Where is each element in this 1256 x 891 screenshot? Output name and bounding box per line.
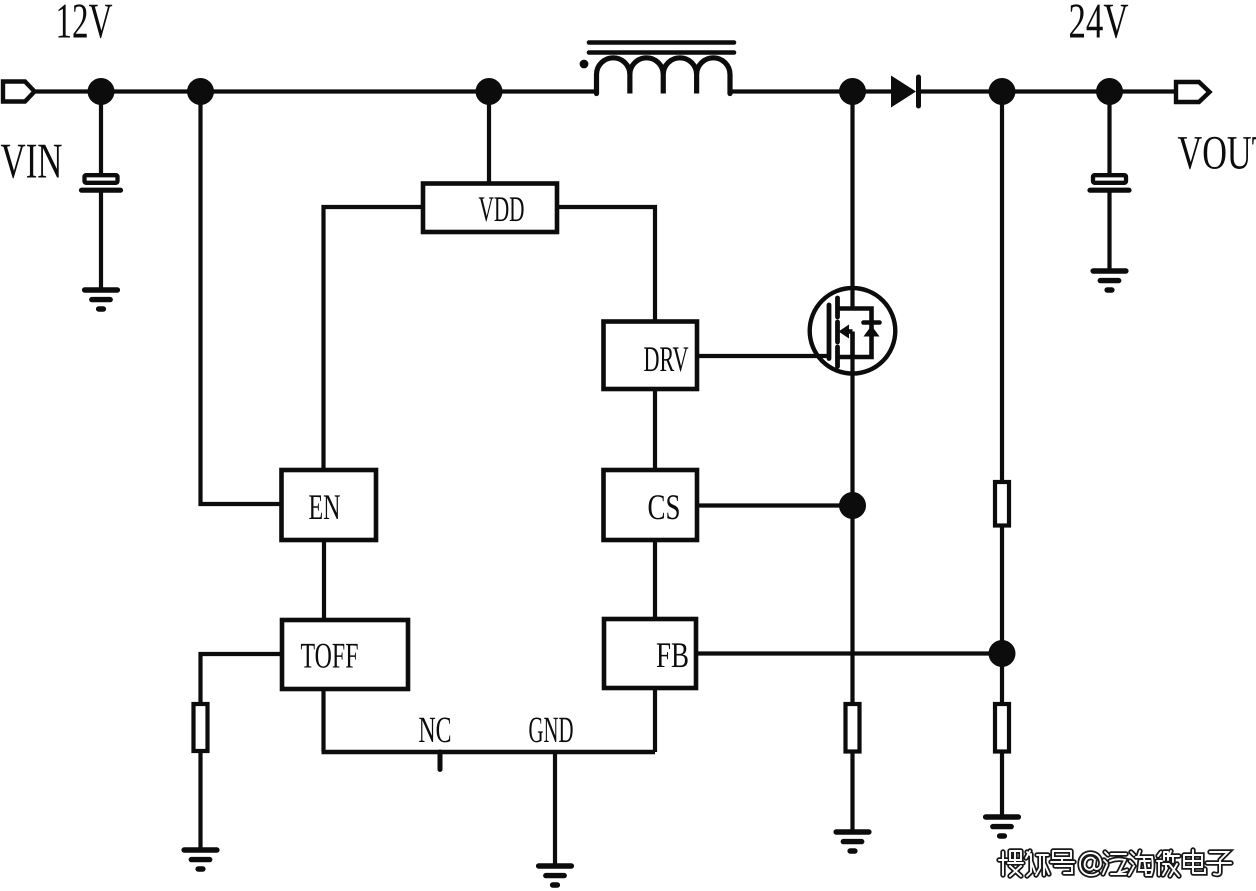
svg-text:FB: FB [656,635,689,675]
svg-text:12V: 12V [56,0,113,49]
svg-text:EN: EN [309,487,341,527]
svg-text:VOUT: VOUT [1178,127,1256,180]
svg-text:GND: GND [529,710,574,751]
svg-text:VDD: VDD [479,189,525,229]
svg-text:DRV: DRV [644,339,689,379]
svg-text:24V: 24V [1069,0,1129,49]
svg-text:NC: NC [419,710,452,751]
svg-text:VIN: VIN [1,133,63,189]
svg-text:TOFF: TOFF [301,636,359,676]
svg-text:CS: CS [648,487,681,527]
